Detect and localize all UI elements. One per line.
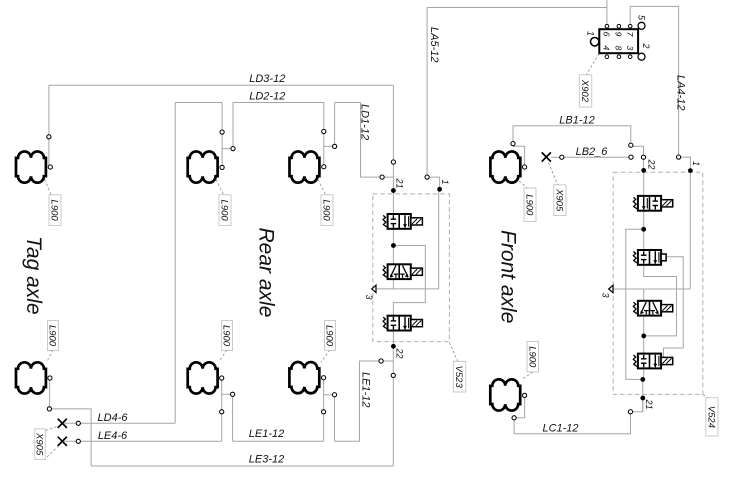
svg-text:L900: L900 [49, 200, 60, 222]
svg-text:22: 22 [647, 159, 657, 170]
wire LB1-12 horizontal [513, 126, 631, 146]
label box L900 front-top [524, 188, 536, 222]
exhaust port 3 triangle V523 [372, 285, 376, 292]
svg-text:1: 1 [440, 180, 450, 185]
junction V524 valve A-B [641, 227, 646, 232]
V523 valve block dashed outline [373, 194, 450, 342]
V524 internal port 1 line down [689, 171, 691, 289]
leader L900 rear-bottom-right [321, 350, 330, 362]
node 21 V524 [640, 396, 645, 401]
V524 internal valve D to bottom junction [643, 369, 645, 380]
coupling V524 port 22 drop [641, 155, 645, 159]
port tag-bottom bellows [48, 376, 52, 380]
leader V523 [449, 343, 457, 362]
wire LA4-12 to V524 port 1 [679, 157, 691, 171]
coupling X905 upper stub [76, 421, 80, 425]
leader L900 rear-top-right [318, 180, 326, 196]
svg-text:L900: L900 [321, 200, 332, 222]
coupling rear-bottom-left drop [220, 410, 224, 414]
svg-text:L900: L900 [324, 325, 335, 347]
port tag-top bellows [48, 165, 52, 169]
port rear-bottom-left bellows [220, 376, 224, 380]
wire tag-bottom bellows drop [49, 378, 51, 409]
svg-text:Rear axle: Rear axle [255, 228, 278, 318]
wire LD3-12 drop to tag axle top bellows [48, 85, 50, 167]
svg-text:LA5-12: LA5-12 [428, 27, 440, 62]
svg-text:Tag axle: Tag axle [22, 236, 45, 315]
wire stub coupling rear-bottom-right [324, 395, 335, 442]
leader X905 left lower [47, 447, 58, 458]
coupling X905 right stub [560, 155, 564, 159]
solenoid valve V524-A (2/2 NO) [638, 196, 661, 211]
svg-text:LA4-12: LA4-12 [675, 75, 687, 110]
air bellows L900 front axle top [490, 151, 520, 182]
leader L900 front-top [519, 181, 529, 189]
V523 exhaust line to port 3 [376, 288, 439, 290]
coupling LB1 end at bellows [511, 142, 515, 146]
node 22 V524 [641, 168, 646, 173]
coupling rear-top-right [322, 129, 326, 133]
wire front-bottom bellows drop [514, 395, 525, 417]
leader L900 tag-bottom [48, 350, 54, 361]
V524 internal junction to valve D [643, 336, 645, 354]
coupling LB1 end right [629, 143, 633, 147]
V523 internal valve S3 to port 22 [392, 330, 394, 346]
leader L900 rear-bottom-left [219, 350, 227, 362]
wire LE1-12 horizontal [233, 440, 324, 442]
svg-text:LD4-6: LD4-6 [98, 412, 129, 424]
port front-top bellows [523, 165, 527, 169]
port rear-bottom-right bellows [322, 376, 326, 380]
label box V523 [453, 361, 466, 392]
svg-text:LB1-12: LB1-12 [559, 115, 594, 127]
connector X902 body [599, 29, 638, 53]
port front-bottom bellows [523, 393, 527, 397]
coupling LB2_6 end [629, 155, 633, 159]
svg-text:8: 8 [614, 46, 624, 51]
label box X905 left [35, 429, 45, 460]
port rear-top-right bellows [322, 165, 326, 169]
solenoid valve V524-C (3/2) [638, 301, 661, 316]
V524 internal valve C to junction [643, 316, 645, 336]
svg-text:LE1-12: LE1-12 [360, 372, 372, 407]
solenoid valve V524-B (2/2 NC, pilot) [638, 250, 661, 265]
svg-text:6: 6 [602, 32, 612, 37]
wire LD4-6 horizontal [62, 422, 175, 424]
V524 internal valve B pilot pipe [664, 257, 684, 358]
air bellows L900 rear axle bottom-right [289, 362, 319, 393]
exhaust port 3 triangle V524 [609, 285, 613, 292]
svg-text:L900: L900 [47, 325, 58, 347]
V524 exhaust line to port 3 [613, 288, 690, 290]
leader L900 rear-top-left [216, 180, 224, 196]
label box X902 [579, 75, 592, 107]
svg-text:LD1-12: LD1-12 [359, 104, 371, 140]
connector X902 pin 2 socket [638, 53, 645, 60]
coupling LE3 riser [391, 373, 395, 377]
coupling tag-bottom corner [47, 407, 51, 411]
coupling LA5 line [425, 175, 429, 179]
test plug X905 left lower X [58, 437, 67, 446]
V524 valve block dashed outline [613, 172, 703, 394]
junction V523 internal [391, 243, 396, 248]
air bellows L900 tag axle top [16, 151, 46, 182]
coupling LC1 end [628, 410, 632, 414]
label box L900 front-bottom [527, 342, 539, 373]
V524 internal left bypass branch [626, 229, 644, 379]
wire LC1-12 horizontal [514, 412, 630, 434]
junction V524 bottom [640, 377, 645, 382]
wire LD1-12 vertical [361, 103, 394, 178]
V524 internal valve B output staircase [644, 265, 677, 336]
V523 internal line port21 to valve S1 [392, 191, 394, 215]
label box L900 rear-bottom-right [325, 321, 336, 351]
svg-text:22: 22 [395, 348, 405, 359]
solenoid valve V524-D (2/2 NC) [638, 354, 661, 369]
label box L900 rear-top-right [321, 195, 333, 226]
connector X902 pin 1 socket [591, 38, 599, 46]
leader X905 right [549, 163, 558, 185]
svg-text:LE3-12: LE3-12 [249, 454, 284, 466]
air bellows L900 rear axle top-left [188, 151, 218, 182]
wire LC1 link to V524 port 21 [631, 398, 643, 412]
svg-text:LB2_6: LB2_6 [576, 146, 609, 158]
wire stub coupling rear-top-left [222, 103, 233, 149]
test plug X905 right X [542, 152, 551, 161]
wire LE4-6 horizontal [62, 440, 221, 442]
wire stub coupling rear-bottom-left [222, 394, 233, 441]
svg-text:V523: V523 [453, 366, 464, 389]
wire link LB1 coupling to V524 port 22 [631, 146, 644, 170]
coupling stub rear-top-right [333, 144, 337, 148]
connector X902 top pin contacts [605, 24, 609, 28]
coupling X905 lower stub [76, 439, 80, 443]
node 21 V523 [391, 188, 396, 193]
V523 internal valve S2 to exhaust line [392, 279, 394, 289]
coupling LA4 end [677, 155, 681, 159]
wire LB2_6 horizontal [551, 156, 631, 158]
V524 internal port 22 to valve A [643, 170, 645, 196]
svg-text:4: 4 [602, 46, 612, 51]
wire LA5-12 vertical [427, 8, 440, 190]
svg-text:LC1-12: LC1-12 [542, 422, 578, 434]
air bellows L900 rear axle bottom-left [188, 362, 218, 393]
svg-text:1: 1 [586, 31, 596, 36]
svg-text:L900: L900 [221, 325, 232, 347]
wire LE1-12 riser to V523 port 22 [335, 361, 394, 441]
node 22 V523 [391, 344, 396, 349]
svg-text:3: 3 [601, 293, 611, 298]
air bellows L900 front axle bottom [490, 379, 520, 410]
svg-text:7: 7 [625, 32, 635, 37]
svg-text:21: 21 [644, 399, 654, 410]
V523 internal port 1 line down [438, 189, 440, 289]
label box X905 right [554, 185, 566, 216]
coupling stub rear-top-left [231, 147, 235, 151]
wire LD3-12 horizontal [49, 84, 394, 86]
leader V524 [703, 394, 709, 398]
wire stub coupling rear-top-right [324, 103, 335, 147]
wire LE3-12 horizontal [91, 465, 393, 467]
wire LD2-12 segment 1 [175, 103, 222, 168]
solenoid valve V523-S3 (2/2 NC) [388, 316, 411, 331]
wire LD2-12 segment 3 [335, 102, 361, 104]
leader L900 tag-top [45, 180, 52, 196]
wire rear-bottom-right bellows drop [323, 378, 325, 442]
test plug X905 left upper X [58, 419, 67, 428]
svg-text:X902: X902 [579, 79, 590, 103]
svg-text:21: 21 [394, 178, 404, 189]
label box V524 [706, 398, 718, 436]
port rear-top-left bellows [220, 165, 224, 169]
leader X902 [587, 54, 600, 75]
svg-text:3: 3 [364, 295, 374, 300]
node 1 V524 [688, 168, 693, 173]
coupling rear-bottom-right drop [322, 410, 326, 414]
coupling stub rear-bottom-right [332, 393, 336, 397]
V523 internal branch to valve S3 [393, 246, 425, 317]
coupling above V523 port 21 [391, 160, 395, 164]
V524 internal bottom junction to port 21 [642, 379, 644, 411]
svg-text:3: 3 [625, 46, 635, 51]
coupling stub rear-bottom-left [231, 392, 235, 396]
svg-text:LE4-6: LE4-6 [98, 430, 128, 442]
svg-text:L900: L900 [219, 200, 230, 222]
leader X905 left upper [46, 427, 58, 431]
V523 internal line valve S1 to valve S2 [392, 229, 394, 264]
svg-text:9: 9 [614, 32, 624, 37]
coupling LD1 line [380, 175, 384, 179]
svg-text:L900: L900 [526, 346, 537, 368]
label box L900 rear-bottom-left [222, 321, 233, 351]
svg-text:Front axle: Front axle [497, 230, 520, 323]
svg-text:LE1-12: LE1-12 [249, 428, 284, 440]
label box L900 tag-bottom [48, 321, 59, 351]
svg-text:X905: X905 [34, 432, 45, 456]
wire rear-bottom-left bellows drop [221, 378, 223, 441]
solenoid valve V523-S2 (3/2) [388, 264, 411, 279]
svg-text:LD3-12: LD3-12 [249, 73, 285, 85]
svg-text:L900: L900 [524, 194, 535, 216]
wire LE3 riser left [49, 409, 91, 466]
wire top feed to X902 pin [606, 0, 608, 26]
svg-text:2: 2 [641, 43, 651, 49]
wire long drop LD2 seg1 to LD4-6 [174, 103, 176, 424]
air bellows L900 tag axle bottom [16, 362, 46, 393]
label box L900 rear-top-left [219, 195, 231, 226]
svg-text:X905: X905 [554, 188, 565, 212]
coupling rear-top-left [220, 130, 224, 134]
svg-text:V524: V524 [706, 406, 717, 428]
svg-text:1: 1 [691, 161, 701, 166]
V524 internal valve A to valve B [643, 211, 645, 251]
node 1 V523 [437, 187, 442, 192]
wire LA4-12 from X902 pin 7 [630, 6, 678, 157]
coupling LE1 at V523 [379, 359, 383, 363]
wire LD3 drop to V523 port 21 [392, 85, 394, 190]
connector X902 bottom pin contacts [605, 55, 609, 59]
V524 internal valve C top to exhaust [643, 289, 645, 300]
wire link LB1 to front axle bellows port [513, 146, 525, 167]
connector X902 pin 5 socket [638, 22, 645, 29]
wire LD2-12 segment 2 [233, 103, 324, 167]
coupling on LD3 drop [47, 135, 51, 139]
leader L900 front-bottom [522, 372, 534, 380]
label box L900 tag-top [49, 195, 61, 226]
wire LE3-12 from V523 port 22 down [392, 346, 394, 466]
junction V524 valve C-D [641, 334, 646, 339]
svg-text:LD2-12: LD2-12 [249, 90, 285, 102]
air bellows L900 rear axle top-right [290, 151, 320, 182]
solenoid valve V523-S1 (2/2 NC) [388, 214, 411, 229]
coupling front-bottom corner [512, 416, 516, 420]
